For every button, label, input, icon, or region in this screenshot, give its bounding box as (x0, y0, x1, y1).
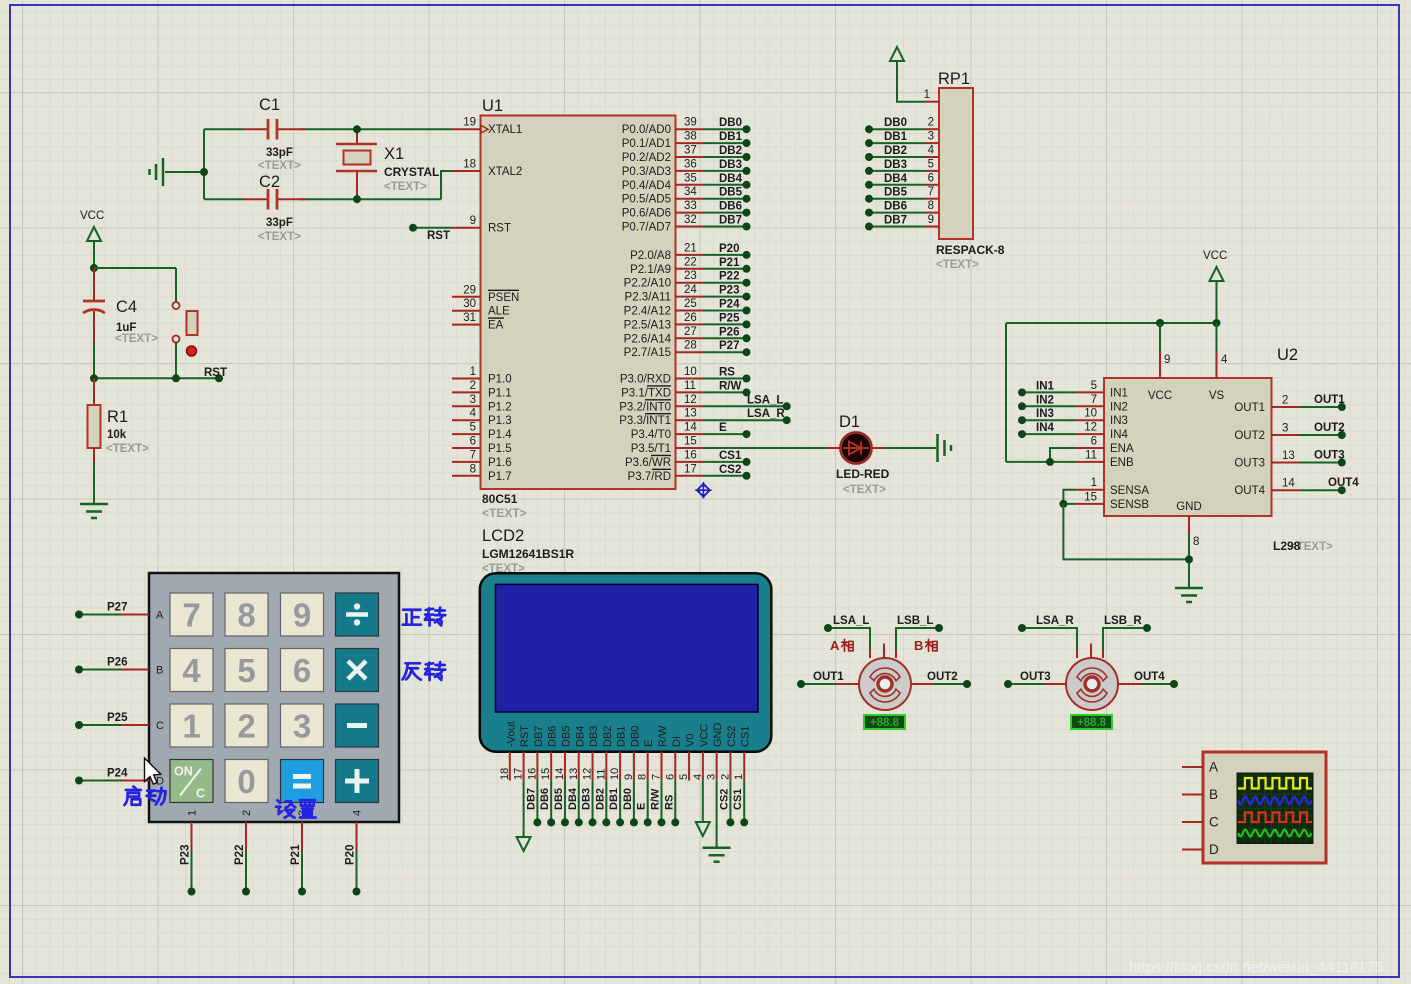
svg-text:LSA_L: LSA_L (833, 615, 869, 627)
svg-text:8: 8 (637, 774, 649, 780)
svg-text:4: 4 (692, 774, 704, 780)
svg-text:P26: P26 (107, 657, 127, 669)
wire LCD pin to net CS2 (718, 781, 734, 827)
svg-text:28: 28 (684, 340, 697, 352)
svg-text:2: 2 (241, 810, 253, 816)
motor left rpm display (864, 715, 905, 729)
svg-text:1: 1 (187, 810, 199, 816)
wire LCD RST pin17 to power-down arrow (517, 781, 531, 851)
svg-text:6: 6 (470, 436, 476, 448)
U2 pin 11 ENB (1006, 323, 1134, 469)
svg-text:DB4: DB4 (567, 787, 579, 810)
oscilloscope trace D green sine wave (1238, 830, 1312, 837)
oscilloscope body (1203, 752, 1326, 863)
svg-text:P3.1/TXD: P3.1/TXD (621, 387, 671, 399)
U1 pin 13 P3.3/INT1 net LSA_R (619, 408, 790, 428)
wire LCD pin to net DB2 (594, 781, 610, 827)
wire LCD pin to net DB0 (622, 781, 638, 827)
svg-text:SENSA: SENSA (1110, 485, 1149, 497)
U1 pin 35 P0.4/AD4 net DB4 (622, 172, 751, 192)
svg-text:18: 18 (463, 159, 476, 171)
svg-text:DB2: DB2 (884, 145, 907, 157)
svg-text:LGM12641BS1R: LGM12641BS1R (482, 547, 574, 561)
LCD2 pin 17 RST (513, 725, 532, 781)
motor left body (859, 658, 911, 710)
svg-text:P22: P22 (719, 271, 739, 283)
wire LCD pin to net DB6 (539, 781, 555, 827)
svg-text:P2.0/A8: P2.0/A8 (630, 250, 671, 262)
svg-text:<TEXT>: <TEXT> (482, 506, 527, 520)
svg-text:P1.5: P1.5 (488, 443, 512, 455)
svg-text:CS2: CS2 (719, 464, 741, 476)
RP1 pin 5 net DB3 (865, 158, 939, 175)
U1 pin 10 P3.0/RXD net RS (620, 366, 751, 386)
ground symbol right of LED (936, 434, 939, 462)
U1 pin 11 P3.1/TXD net R/W (621, 380, 750, 400)
svg-text:<TEXT>: <TEXT> (384, 181, 427, 193)
U1 pin 24 P2.3/A11 net P23 (625, 284, 751, 304)
svg-text:P0.5/AD5: P0.5/AD5 (622, 194, 671, 206)
svg-text:25: 25 (684, 298, 697, 310)
U1 pin 6 P1.5 (452, 436, 512, 456)
svg-text:15: 15 (540, 768, 552, 780)
svg-text:<TEXT>: <TEXT> (115, 333, 158, 345)
svg-text:4: 4 (928, 145, 935, 157)
svg-text:CS1: CS1 (719, 450, 742, 462)
power VCC symbol above U2 (1203, 250, 1227, 323)
svg-text:C4: C4 (116, 298, 137, 316)
svg-text:CRYSTAL: CRYSTAL (384, 165, 439, 179)
svg-text:C1: C1 (259, 96, 280, 114)
svg-text:ENA: ENA (1110, 443, 1134, 455)
svg-text:B: B (156, 665, 163, 677)
oscilloscope pin B (1182, 787, 1218, 802)
svg-text:P22: P22 (234, 845, 246, 865)
LCD2 pin 4 VCC (692, 724, 711, 781)
svg-text:C: C (196, 787, 205, 801)
svg-text:DB7: DB7 (884, 215, 907, 227)
svg-text:P0.1/AD1: P0.1/AD1 (622, 138, 671, 150)
annotation text forward-rotation (Chinese) (403, 608, 446, 626)
svg-text:1: 1 (182, 708, 200, 745)
wire U2 top VCC rail (1006, 319, 1221, 327)
svg-text:9: 9 (293, 597, 311, 634)
svg-text:DB6: DB6 (547, 726, 559, 747)
U1 pin 7 P1.6 (452, 449, 512, 469)
keypad column pin 2 net P22 (234, 810, 253, 896)
svg-text:12: 12 (1084, 422, 1097, 434)
keypad key 6 (281, 649, 324, 692)
motor right top pins (1018, 624, 1151, 658)
svg-text:E: E (643, 740, 655, 747)
U1 pin 14 P3.4/T0 net E (631, 422, 751, 442)
svg-text:LSB_L: LSB_L (897, 615, 933, 627)
resistor pack RP1 RESPACK-8 body (936, 70, 1005, 271)
svg-text:16: 16 (684, 449, 697, 461)
svg-text:5: 5 (1091, 380, 1097, 392)
svg-text:16: 16 (526, 768, 538, 780)
svg-text:33pF: 33pF (266, 217, 293, 229)
svg-text:2: 2 (237, 708, 255, 745)
label phase B left (914, 638, 937, 653)
U2 pin 3 OUT2 (1234, 422, 1345, 442)
svg-text:OUT4: OUT4 (1328, 477, 1359, 489)
U2 pin 13 OUT3 (1234, 450, 1345, 470)
U2 pin 8 GND (1176, 501, 1202, 588)
svg-text:PSEN: PSEN (488, 292, 519, 304)
svg-text:80C51: 80C51 (482, 492, 518, 506)
svg-text:LSB_R: LSB_R (1104, 615, 1142, 627)
U1 pin 37 P0.2/AD2 net DB2 (622, 145, 751, 165)
svg-text:DB6: DB6 (884, 201, 907, 213)
svg-text:P26: P26 (719, 326, 739, 338)
capacitor C1 33pF (258, 96, 301, 172)
svg-text:3: 3 (928, 131, 934, 143)
LCD2 pin 11 DB2 (595, 726, 614, 781)
svg-text:OUT3: OUT3 (1234, 458, 1265, 470)
svg-text:IN4: IN4 (1036, 422, 1055, 434)
keypad key equals (281, 760, 324, 803)
svg-text:0: 0 (237, 763, 255, 800)
U1 pin 29 PSEN (452, 284, 519, 304)
LCD2 pin 13 DB4 (568, 726, 587, 781)
wire XTAL1 top rail (204, 128, 452, 130)
svg-text:LCD2: LCD2 (482, 527, 524, 545)
svg-text:GND: GND (1176, 501, 1202, 513)
svg-text:9: 9 (1164, 354, 1170, 366)
svg-text:DB2: DB2 (602, 726, 614, 747)
svg-text:P2.2/A10: P2.2/A10 (624, 278, 671, 290)
wire LCD GND pin3 to ground (703, 781, 731, 862)
svg-text:GND: GND (712, 723, 724, 748)
svg-text:DB1: DB1 (719, 131, 743, 143)
annotation text settings (Chinese) (276, 800, 315, 817)
svg-text:OUT3: OUT3 (1020, 671, 1051, 683)
svg-text:U2: U2 (1277, 346, 1298, 364)
svg-text:IN1: IN1 (1036, 380, 1055, 392)
svg-text:3: 3 (293, 708, 311, 745)
LCD2 pin 7 R/W (650, 725, 669, 781)
svg-text:DB6: DB6 (539, 788, 551, 810)
svg-text:36: 36 (684, 158, 697, 170)
svg-text:17: 17 (684, 463, 697, 475)
wire U1 pin15 to LED D1 (703, 447, 840, 449)
mouse cursor (145, 758, 161, 784)
svg-text:15: 15 (684, 436, 697, 448)
svg-text:ALE: ALE (488, 306, 510, 318)
keypad key 0 (225, 760, 268, 803)
svg-text:11: 11 (1085, 449, 1097, 461)
svg-text:7: 7 (928, 186, 934, 198)
svg-text:E: E (636, 803, 648, 810)
keypad key 4 (170, 649, 213, 692)
motor right left pin net OUT3 (1004, 671, 1066, 688)
svg-text:IN2: IN2 (1110, 401, 1128, 413)
wire RST row (90, 367, 227, 382)
keypad row pin C net P25 (75, 712, 164, 732)
svg-text:C: C (156, 720, 164, 732)
svg-text:5: 5 (470, 422, 476, 434)
svg-text:OUT1: OUT1 (813, 671, 844, 683)
keypad key 9 (281, 593, 324, 636)
U1 pin 36 P0.3/AD3 net DB3 (622, 158, 751, 178)
svg-text:OUT2: OUT2 (927, 671, 958, 683)
LCD2 pin 1 CS1 (733, 726, 752, 781)
keypad column pin 4 net P20 (345, 810, 364, 896)
U1 pin 9 RST (452, 215, 511, 235)
svg-text:4: 4 (352, 810, 364, 816)
svg-text:34: 34 (684, 186, 697, 198)
svg-text:P3.5/T1: P3.5/T1 (631, 443, 671, 455)
resistor R1 10k (88, 378, 150, 504)
svg-text:P1.6: P1.6 (488, 457, 512, 469)
svg-text:P0.4/AD4: P0.4/AD4 (622, 180, 672, 192)
svg-text:31: 31 (463, 312, 476, 324)
svg-text:V0: V0 (685, 734, 697, 747)
svg-text:4: 4 (1221, 354, 1228, 366)
svg-text:9: 9 (470, 215, 476, 227)
svg-text:9: 9 (928, 214, 934, 226)
svg-text:DB1: DB1 (616, 726, 628, 747)
svg-text:DB5: DB5 (553, 788, 565, 810)
svg-text:DB3: DB3 (884, 159, 907, 171)
annotation text start (Chinese) (124, 787, 165, 805)
svg-text:OUT2: OUT2 (1234, 430, 1265, 442)
svg-text:RST: RST (204, 367, 227, 379)
wire LCD VCC pin4 to power-down arrow (696, 781, 710, 836)
svg-text:OUT4: OUT4 (1134, 671, 1165, 683)
svg-text:14: 14 (684, 422, 697, 434)
wire left vertical between C1 and C2 rails (203, 129, 205, 199)
oscilloscope trace A yellow square wave (1238, 778, 1312, 789)
svg-text:U1: U1 (482, 97, 503, 115)
node junction VCC/C4 (90, 264, 98, 272)
svg-text:IN3: IN3 (1110, 415, 1128, 427)
svg-text:P1.0: P1.0 (488, 374, 512, 386)
svg-text:8: 8 (1193, 536, 1199, 548)
svg-text:DB7: DB7 (525, 788, 537, 810)
U1 pin 26 P2.5/A13 net P25 (624, 312, 751, 332)
RP1 pin 6 net DB4 (865, 172, 939, 189)
keypad column pin 3 net P21 (290, 810, 309, 896)
svg-text:IN2: IN2 (1036, 394, 1054, 406)
svg-text:VCC: VCC (80, 210, 104, 222)
svg-text:11: 11 (684, 380, 696, 392)
svg-text:17: 17 (513, 768, 525, 780)
capacitor C4 1uF polarized (83, 268, 158, 378)
RP1 pin 2 net DB0 (865, 117, 939, 134)
svg-text:<TEXT>: <TEXT> (106, 443, 149, 455)
ground symbol below U2 (1175, 587, 1203, 590)
U1 XTAL1 pin arrow (481, 125, 488, 133)
svg-text:P27: P27 (107, 602, 127, 614)
svg-text:P2.4/A12: P2.4/A12 (624, 306, 671, 318)
svg-text:P0.0/AD0: P0.0/AD0 (622, 124, 671, 136)
svg-text:P2.5/A13: P2.5/A13 (624, 319, 671, 331)
U2 pin 7 IN2 (1018, 394, 1128, 414)
svg-text:30: 30 (463, 298, 476, 310)
svg-text:+88.8: +88.8 (870, 717, 900, 729)
wire LCD pin to net DB4 (567, 781, 583, 827)
motor left left pin net OUT1 (797, 671, 859, 688)
RP1 pin 4 net DB2 (865, 145, 939, 162)
svg-text:26: 26 (684, 312, 697, 324)
ground symbol left of crystal (150, 158, 209, 186)
svg-text:A: A (1209, 760, 1218, 775)
LED D1 LED-RED (828, 413, 890, 496)
keypad key 8 (225, 593, 268, 636)
svg-text:P3.7/RD: P3.7/RD (628, 471, 671, 483)
LCD2 module body (480, 573, 772, 751)
annotation text reverse-rotation (Chinese) (403, 662, 446, 680)
U1 pin 23 P2.2/A10 net P22 (624, 270, 751, 290)
U2 pin 6 ENA (1050, 436, 1134, 462)
U1 pin 27 P2.6/A14 net P26 (624, 326, 751, 346)
U1 pin 39 P0.0/AD0 net DB0 (622, 117, 751, 137)
svg-text:DB0: DB0 (719, 117, 742, 129)
U1 pin 21 P2.0/A8 net P20 (630, 242, 750, 262)
oscilloscope trace C red square wave (1238, 813, 1312, 823)
U2 pin 9 VCC (1148, 323, 1172, 402)
svg-text:ENB: ENB (1110, 457, 1134, 469)
svg-text:10: 10 (684, 366, 697, 378)
svg-text:P23: P23 (180, 845, 192, 865)
svg-text:XTAL1: XTAL1 (488, 124, 522, 136)
svg-text:R1: R1 (107, 408, 128, 426)
U1 pin 17 P3.7/RD net CS2 (628, 463, 751, 483)
svg-text:38: 38 (684, 131, 697, 143)
svg-text:3: 3 (1282, 423, 1288, 435)
op-amp U1 80C51 microcontroller body (481, 97, 676, 520)
svg-text:7: 7 (470, 449, 476, 461)
U2 pin 10 IN3 (1018, 408, 1128, 428)
svg-text:DB1: DB1 (884, 131, 908, 143)
svg-text:IN3: IN3 (1036, 408, 1054, 420)
svg-text:P25: P25 (719, 312, 740, 324)
svg-text:DB3: DB3 (588, 726, 600, 747)
svg-text:3: 3 (706, 774, 718, 780)
svg-text:+88.8: +88.8 (1077, 717, 1107, 729)
svg-text:RST: RST (519, 725, 531, 747)
U2 pin 12 IN4 (1018, 422, 1129, 442)
svg-text:5: 5 (678, 774, 690, 780)
svg-text:DB4: DB4 (884, 173, 908, 185)
svg-text:37: 37 (684, 145, 697, 157)
svg-text:DB1: DB1 (608, 788, 620, 810)
svg-text:10: 10 (609, 768, 621, 780)
svg-text:11: 11 (595, 769, 607, 780)
svg-text:C2: C2 (259, 173, 280, 191)
U2 pin 15 SENSB (1059, 491, 1189, 559)
svg-text:DB0: DB0 (622, 788, 634, 810)
svg-text:<TEXT>: <TEXT> (843, 484, 886, 496)
svg-text:CS2: CS2 (718, 789, 730, 810)
svg-text:DB6: DB6 (719, 201, 742, 213)
svg-text:13: 13 (1282, 450, 1295, 462)
U1 pin 2 P1.1 (452, 380, 512, 400)
svg-text:7: 7 (182, 597, 200, 634)
svg-text:5: 5 (928, 158, 934, 170)
U2 pin 4 VS (1209, 323, 1228, 402)
svg-text:IN4: IN4 (1110, 429, 1129, 441)
svg-text:33: 33 (684, 200, 697, 212)
keypad key 3 (281, 704, 324, 747)
svg-text:13: 13 (568, 768, 580, 780)
origin marker near U1 (695, 482, 711, 498)
svg-text:29: 29 (463, 284, 476, 296)
svg-text:DB5: DB5 (560, 726, 572, 747)
motor left right pin net OUT2 (911, 671, 971, 688)
wire LED to ground (885, 447, 936, 449)
svg-text:6: 6 (1091, 436, 1097, 448)
motor right body (1066, 658, 1118, 710)
svg-text:P1.4: P1.4 (488, 429, 512, 441)
svg-text:RS: RS (719, 367, 735, 379)
svg-text:LSA_R: LSA_R (1036, 615, 1074, 627)
svg-text:VCC: VCC (1148, 390, 1172, 402)
svg-text:P1.2: P1.2 (488, 401, 512, 413)
oscilloscope pin A (1182, 760, 1218, 775)
svg-text:LED-RED: LED-RED (836, 467, 890, 481)
svg-text:X1: X1 (384, 145, 404, 163)
RP1 pin 1 (924, 89, 939, 102)
svg-text:P0.3/AD3: P0.3/AD3 (622, 166, 671, 178)
motor right rpm display (1071, 715, 1112, 729)
keypad key plus (336, 760, 379, 803)
keypad key 5 (225, 649, 268, 692)
svg-text:OUT3: OUT3 (1314, 450, 1345, 462)
U1 pin 38 P0.1/AD1 net DB1 (622, 131, 751, 151)
svg-text:CS1: CS1 (740, 726, 752, 747)
LCD2 pin 15 DB6 (540, 726, 559, 781)
svg-text:35: 35 (684, 172, 697, 184)
keypad body (149, 573, 399, 822)
svg-text:2: 2 (928, 117, 934, 129)
LCD2 pin 3 GND (706, 723, 725, 781)
power VCC symbol above RP1 (890, 47, 925, 102)
svg-text:P0.2/AD2: P0.2/AD2 (622, 152, 671, 164)
svg-text:VCC: VCC (698, 724, 710, 747)
svg-text:P0.6/AD6: P0.6/AD6 (622, 208, 671, 220)
wire LCD pin to net R/W (649, 781, 665, 827)
LCD2 pin 12 DB3 (582, 726, 601, 781)
svg-text:D: D (1209, 842, 1219, 857)
svg-text:ON: ON (174, 765, 193, 779)
svg-text:CS2: CS2 (726, 726, 738, 747)
U1 pin 12 P3.2/INT0 net LSA_L (619, 394, 790, 414)
svg-text:RST: RST (427, 230, 450, 242)
svg-text:OUT1: OUT1 (1314, 394, 1345, 406)
wire LCD pin to net DB5 (553, 781, 569, 827)
keypad key 2 (225, 704, 268, 747)
svg-text:8: 8 (470, 463, 476, 475)
svg-text:P2.6/A14: P2.6/A14 (624, 333, 672, 345)
keypad key divide (336, 593, 379, 636)
svg-text:P21: P21 (719, 257, 740, 269)
svg-text:DB3: DB3 (581, 788, 593, 810)
wire RST to U1 pin9 (409, 224, 452, 242)
oscilloscope trace B blue sine wave (1238, 797, 1312, 805)
svg-text:DB4: DB4 (574, 726, 586, 747)
wire VCC junction to switch (94, 268, 176, 302)
keypad key minus (336, 704, 379, 747)
LCD2 pin 10 DB1 (609, 726, 628, 781)
svg-text:24: 24 (684, 284, 697, 296)
svg-text:P21: P21 (290, 844, 302, 865)
svg-text:CS1: CS1 (732, 789, 744, 810)
oscilloscope screen (1237, 773, 1313, 844)
svg-text:-Vout: -Vout (505, 721, 517, 747)
